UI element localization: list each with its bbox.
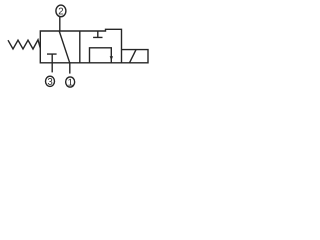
- wire port 1 stub: [69, 63, 71, 74]
- digit 2: [59, 8, 63, 15]
- digit 3: [48, 78, 53, 85]
- flow path 1-2 (left box diagonal): [59, 31, 69, 63]
- valve body outline V1: [40, 29, 121, 63]
- digit 1: [68, 79, 72, 86]
- blocked port 3 T (left box): [47, 54, 57, 63]
- solenoid box: [122, 50, 149, 63]
- port label 2 (circled): [56, 5, 66, 17]
- blocked port 2 T (right box): [93, 31, 102, 37]
- valve position divider: [79, 31, 81, 63]
- wire port 3 stub: [51, 63, 53, 73]
- arrow on flow path 1-3: [110, 56, 113, 60]
- port label 3 (circled): [46, 76, 55, 86]
- wire port 2 stub: [59, 16, 61, 31]
- flow path 1-3 U (right box): [90, 48, 112, 63]
- spring: [8, 40, 40, 49]
- solenoid diagonal: [130, 50, 137, 63]
- port label 1 (circled): [66, 77, 75, 87]
